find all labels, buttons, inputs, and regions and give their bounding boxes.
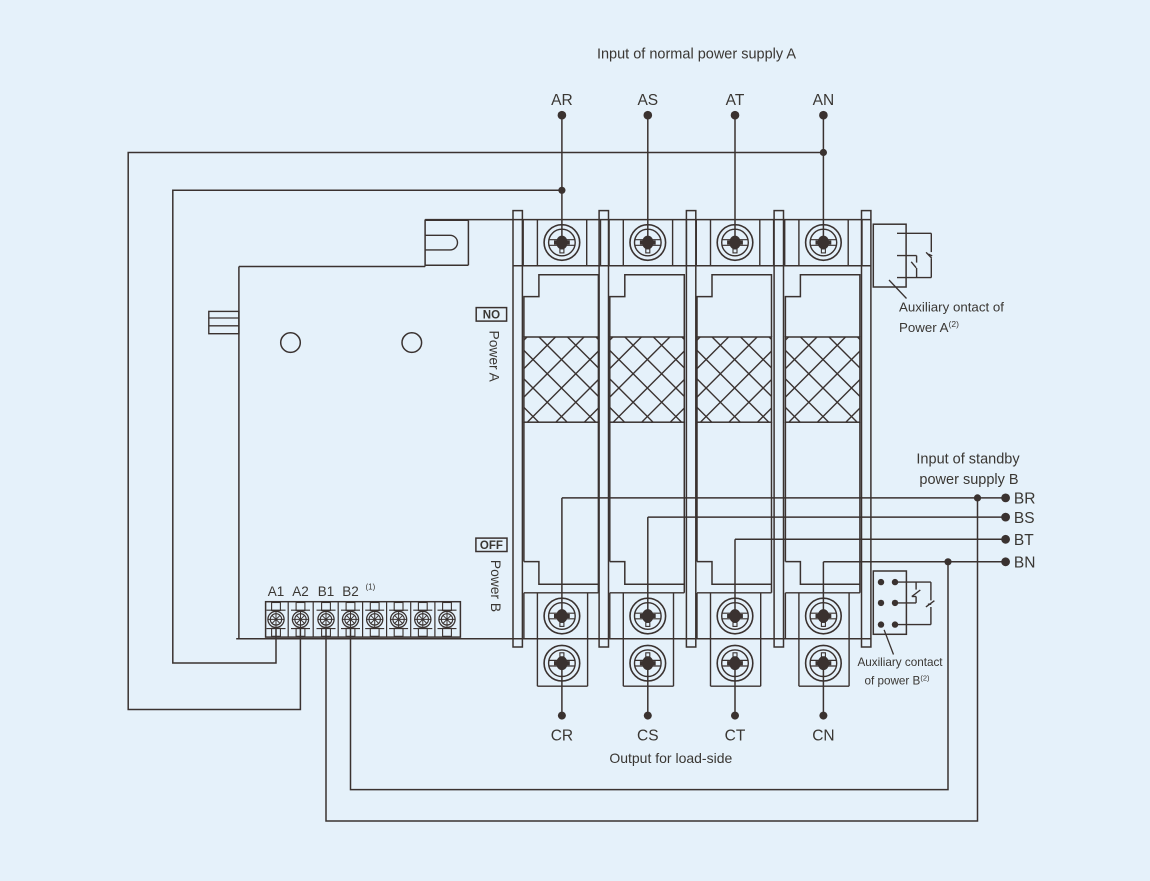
svg-text:Power A: Power A [487,331,502,383]
svg-text:Input of normal power supply A: Input of normal power supply A [597,46,796,62]
svg-text:B2: B2 [342,584,359,599]
svg-text:Power B: Power B [488,560,503,612]
svg-text:CT: CT [725,728,746,745]
svg-text:AR: AR [551,92,573,109]
svg-text:NO: NO [483,309,500,321]
svg-text:B1: B1 [318,584,335,599]
svg-text:A1: A1 [268,584,285,599]
svg-text:(1): (1) [366,583,376,592]
svg-text:BS: BS [1014,510,1035,527]
svg-text:Input of standby: Input of standby [916,452,1020,468]
svg-text:Output for load-side: Output for load-side [609,750,732,766]
svg-text:CR: CR [551,728,573,745]
svg-text:AN: AN [813,92,835,109]
svg-text:BR: BR [1014,491,1036,508]
svg-text:CS: CS [637,728,659,745]
svg-text:BT: BT [1014,532,1034,549]
svg-text:Auxiliary contact: Auxiliary contact [857,656,943,669]
svg-text:A2: A2 [292,584,309,599]
svg-text:of power B(2): of power B(2) [864,674,930,688]
svg-text:power supply B: power supply B [919,472,1018,488]
svg-text:BN: BN [1014,555,1036,572]
svg-text:OFF: OFF [480,540,503,552]
svg-text:AS: AS [637,92,658,109]
svg-text:AT: AT [726,92,745,109]
svg-text:CN: CN [812,728,834,745]
svg-text:Auxiliary ontact of: Auxiliary ontact of [899,300,1004,315]
